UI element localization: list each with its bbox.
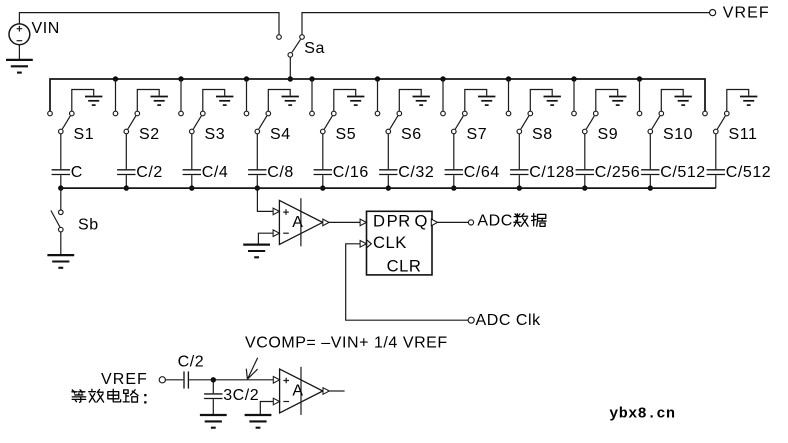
svg-text:S2: S2	[139, 126, 160, 143]
capacitor C (cell 1)	[52, 134, 70, 188]
ground (S8)	[530, 90, 561, 112]
junction (top bus / S9 drop)	[571, 76, 576, 81]
label shu (Chinese: data char1)	[514, 214, 528, 227]
wire top bus to S5	[311, 79, 313, 111]
svg-text:ybx8.cn: ybx8.cn	[609, 405, 675, 422]
svg-text:C/16: C/16	[333, 164, 369, 181]
svg-text:S11: S11	[729, 126, 758, 143]
capacitor C/4 (cell 3)	[183, 134, 201, 188]
switch S9	[572, 111, 598, 134]
svg-text:ADC Clk: ADC Clk	[476, 312, 542, 329]
wire comparator - input to ground	[258, 233, 272, 243]
svg-text:S5: S5	[336, 126, 357, 143]
switch S3	[179, 111, 205, 134]
label dengxiaodianlu (Chinese: equivalent circuit)	[72, 390, 86, 403]
svg-text:PR: PR	[387, 212, 411, 231]
svg-text:A: A	[292, 383, 303, 400]
node VREF	[710, 10, 716, 16]
capacitor C/256 (cell 9)	[576, 134, 594, 188]
svg-text:3C/2: 3C/2	[223, 387, 259, 404]
svg-text:S8: S8	[532, 126, 553, 143]
svg-text:C: C	[71, 164, 83, 181]
svg-text:VREF: VREF	[723, 4, 770, 21]
junction (top bus / S3 drop)	[178, 76, 183, 81]
ground (S3)	[203, 90, 234, 112]
wire top bus to S2	[115, 79, 117, 111]
junction (bottom bus / capacitor 10)	[648, 185, 653, 190]
capacitor C/512 (cell 10)	[641, 134, 659, 188]
junction (bottom bus / capacitor 3)	[189, 185, 194, 190]
wire top bus to S10	[639, 79, 641, 111]
svg-text:C/128: C/128	[529, 164, 574, 181]
comparator A (U1)	[273, 198, 329, 246]
junction (bottom bus / capacitor 4)	[255, 185, 260, 190]
wire top bus to S6	[377, 79, 379, 111]
junction (bottom bus / capacitor 8)	[517, 185, 522, 190]
node ADC Clk	[468, 317, 474, 323]
wire comparator output to D input	[329, 221, 360, 223]
callout arrow to VCOMP node	[246, 358, 257, 380]
wire Q to ADC data terminal	[438, 221, 469, 223]
wire Sa to VREF terminal	[302, 13, 709, 35]
capacitor C/128 (cell 8)	[510, 134, 528, 188]
svg-text:C/2: C/2	[178, 354, 205, 371]
svg-text:C/2: C/2	[136, 164, 163, 181]
D flip-flop U2	[360, 211, 438, 275]
svg-text:C/4: C/4	[202, 164, 229, 181]
pin D input arrow	[360, 219, 366, 226]
op-amp A (equivalent circuit)	[273, 367, 329, 415]
ground (S1)	[72, 90, 103, 112]
wire op-amp output	[329, 390, 344, 392]
switch S8	[506, 111, 532, 134]
switch S5	[310, 111, 336, 134]
svg-text:C/8: C/8	[267, 164, 294, 181]
svg-text:Sb: Sb	[78, 217, 99, 234]
svg-text:S6: S6	[401, 126, 422, 143]
svg-text:VREF: VREF	[101, 371, 148, 388]
junction (bottom bus / capacitor 7)	[451, 185, 456, 190]
svg-text:S3: S3	[205, 126, 226, 143]
svg-text:Q: Q	[415, 212, 428, 231]
capacitor C/8 (cell 4)	[248, 134, 266, 188]
switch S10	[637, 111, 663, 134]
junction (top bus / S8 drop)	[506, 76, 511, 81]
svg-text:VIN: VIN	[32, 20, 60, 37]
svg-text:Sa: Sa	[304, 40, 325, 57]
junction (bottom bus / capacitor 9)	[582, 185, 587, 190]
junction (bottom bus / capacitor 1)	[58, 185, 63, 190]
wire top bus to S4	[246, 79, 248, 111]
svg-text:CLK: CLK	[373, 233, 407, 252]
ground (3C/2)	[200, 415, 227, 428]
ground (S6)	[399, 90, 430, 112]
ground (VIN source)	[6, 60, 33, 73]
svg-text:C/512: C/512	[660, 164, 705, 181]
switch Sb	[51, 188, 63, 255]
svg-text:C/256: C/256	[595, 164, 640, 181]
svg-text:S1: S1	[74, 126, 95, 143]
switch S11	[703, 111, 729, 134]
junction (bottom bus / capacitor 6)	[386, 185, 391, 190]
ground (S7)	[465, 90, 496, 112]
ground (op-amp -)	[245, 415, 272, 428]
capacitor C/32 (cell 6)	[379, 134, 397, 188]
label ju (Chinese: data char2)	[532, 214, 546, 227]
switch S2	[113, 111, 139, 134]
wire C/2 to op-amp + input	[189, 379, 273, 381]
junction (bottom bus / capacitor 2)	[124, 185, 129, 190]
junction (bottom bus / capacitor 5)	[320, 185, 325, 190]
junction (top bus / S5 drop)	[309, 76, 314, 81]
wire top bus to S7	[442, 79, 444, 111]
capacitor C/64 (cell 7)	[445, 134, 463, 188]
ground (S10)	[661, 90, 692, 112]
switch Sa	[277, 35, 305, 78]
junction (top bus / S2 drop)	[113, 76, 118, 81]
label colon	[144, 394, 146, 396]
switch S7	[441, 111, 467, 134]
svg-text:ADC: ADC	[477, 212, 512, 229]
wire top bus to S9	[573, 79, 575, 111]
top bus wire	[50, 79, 705, 111]
wire top bus to S3	[180, 79, 182, 111]
svg-text:S9: S9	[598, 126, 619, 143]
svg-text:S4: S4	[270, 126, 291, 143]
junction (top bus / S4 drop)	[244, 76, 249, 81]
capacitor C/2 (series)	[184, 371, 188, 388]
capacitor C/512 (cell 11)	[707, 134, 725, 188]
node VREF equivalent input	[159, 377, 165, 383]
svg-text:CLR: CLR	[387, 256, 422, 275]
junction (Sa / top bus)	[288, 76, 293, 81]
bottom bus wire (common node)	[61, 187, 716, 189]
pin Q output arrow	[431, 219, 437, 226]
junction (top bus / S6 drop)	[375, 76, 380, 81]
wire top bus to S8	[508, 79, 510, 111]
svg-text:C/32: C/32	[398, 164, 434, 181]
ground (Sb)	[47, 255, 74, 268]
ground (S4)	[268, 90, 299, 112]
wire VIN to switch Sa	[19, 13, 279, 35]
svg-text:C/512: C/512	[726, 164, 771, 181]
node ADC data	[468, 220, 473, 225]
svg-text:VCOMP= –VIN+ 1/4 VREF: VCOMP= –VIN+ 1/4 VREF	[245, 334, 448, 351]
ground (comparator -)	[243, 245, 270, 258]
junction (top bus / S7 drop)	[440, 76, 445, 81]
svg-text:C/64: C/64	[464, 164, 500, 181]
voltage source VIN	[9, 24, 30, 60]
capacitor C/16 (cell 5)	[314, 134, 332, 188]
wire bottom bus to comparator + input	[257, 188, 272, 211]
svg-text:A: A	[292, 214, 303, 231]
svg-text:S7: S7	[467, 126, 488, 143]
capacitor C/2 (cell 2)	[117, 134, 135, 188]
svg-text:D: D	[373, 212, 386, 231]
ground (S11)	[727, 90, 758, 112]
ground (S9)	[596, 90, 627, 112]
ground (S5)	[334, 90, 365, 112]
pin CLK input arrows	[360, 241, 366, 248]
junction (VCOMP node)	[211, 377, 216, 382]
switch S1	[48, 111, 74, 134]
junction (top bus / S10 drop)	[637, 76, 642, 81]
capacitor 3C/2 (shunt)	[204, 380, 222, 415]
wire op-amp - input to ground	[260, 402, 273, 415]
wire ADC Clk to CLK input	[346, 244, 469, 320]
ground (S2)	[137, 90, 168, 112]
switch S4	[244, 111, 270, 134]
svg-text:S10: S10	[663, 126, 693, 143]
switch S6	[375, 111, 401, 134]
wire VREF terminal to C/2	[166, 379, 184, 381]
